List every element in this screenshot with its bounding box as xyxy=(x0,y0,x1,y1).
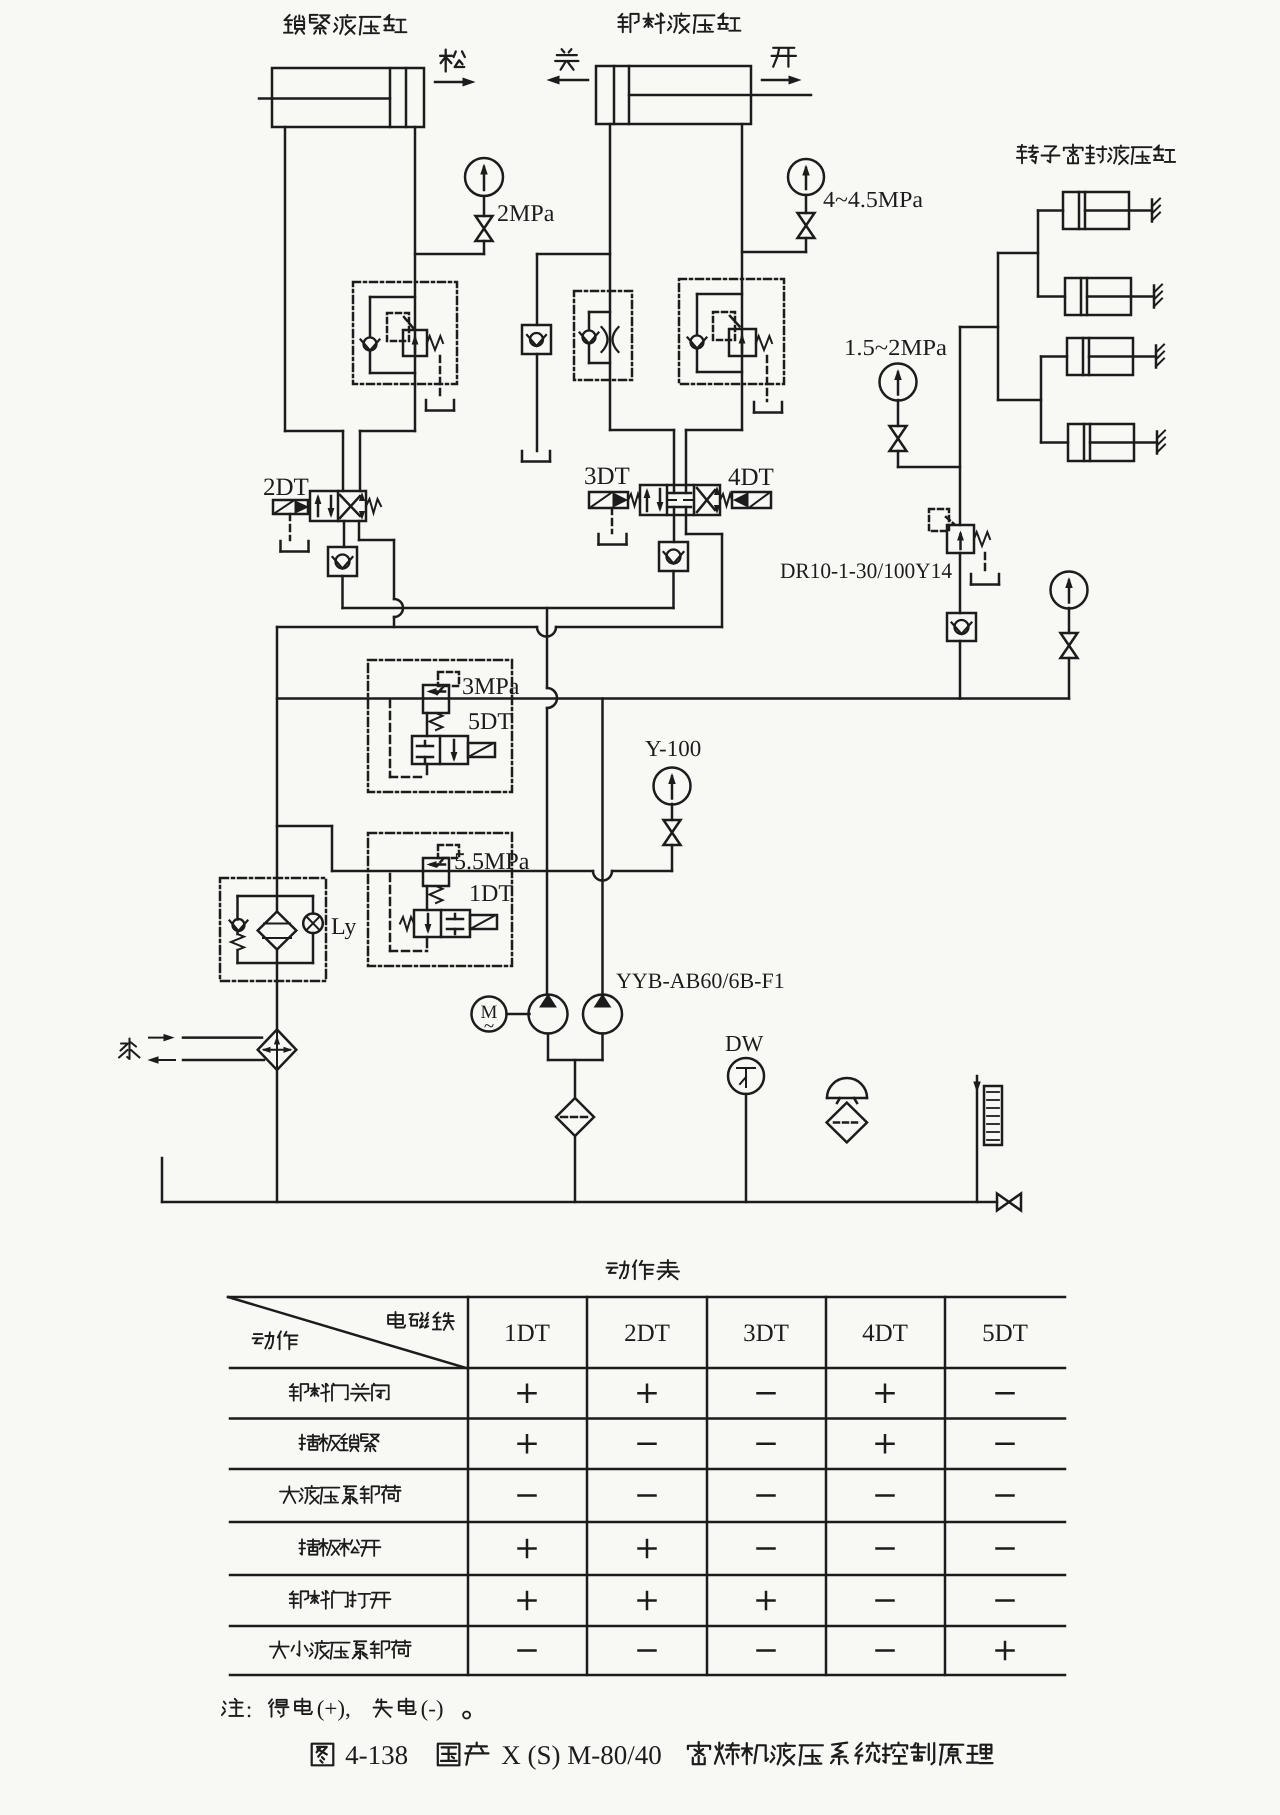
svg-text:3DT: 3DT xyxy=(743,1320,789,1347)
svg-text:X (S) M-80/40: X (S) M-80/40 xyxy=(501,1740,662,1770)
svg-text:(-): (-) xyxy=(421,1696,444,1721)
svg-text:4~4.5MPa: 4~4.5MPa xyxy=(823,187,923,212)
svg-text:2DT: 2DT xyxy=(263,474,309,501)
svg-text:4DT: 4DT xyxy=(728,464,774,491)
svg-text:1.5~2MPa: 1.5~2MPa xyxy=(844,335,947,360)
svg-text:5DT: 5DT xyxy=(982,1320,1028,1347)
svg-text:(+),: (+), xyxy=(317,1696,351,1721)
svg-text:1DT: 1DT xyxy=(504,1320,550,1347)
svg-text:~: ~ xyxy=(484,1016,494,1037)
svg-text:3MPa: 3MPa xyxy=(462,674,520,700)
svg-text:Y-100: Y-100 xyxy=(645,736,701,761)
svg-text:4DT: 4DT xyxy=(862,1320,908,1347)
svg-text:5.5MPa: 5.5MPa xyxy=(454,849,530,875)
svg-text:1DT: 1DT xyxy=(469,881,513,907)
svg-text:3DT: 3DT xyxy=(584,463,630,490)
svg-text::: : xyxy=(246,1697,252,1722)
svg-text:2MPa: 2MPa xyxy=(497,201,555,227)
svg-text:DR10-1-30/100Y14: DR10-1-30/100Y14 xyxy=(780,558,952,583)
svg-text:Ly: Ly xyxy=(331,914,356,940)
svg-text:4-138: 4-138 xyxy=(345,1740,408,1770)
svg-text:5DT: 5DT xyxy=(468,709,512,735)
svg-text:YYB-AB60/6B-F1: YYB-AB60/6B-F1 xyxy=(616,968,785,993)
svg-text:DW: DW xyxy=(725,1031,764,1056)
svg-text:2DT: 2DT xyxy=(624,1320,670,1347)
